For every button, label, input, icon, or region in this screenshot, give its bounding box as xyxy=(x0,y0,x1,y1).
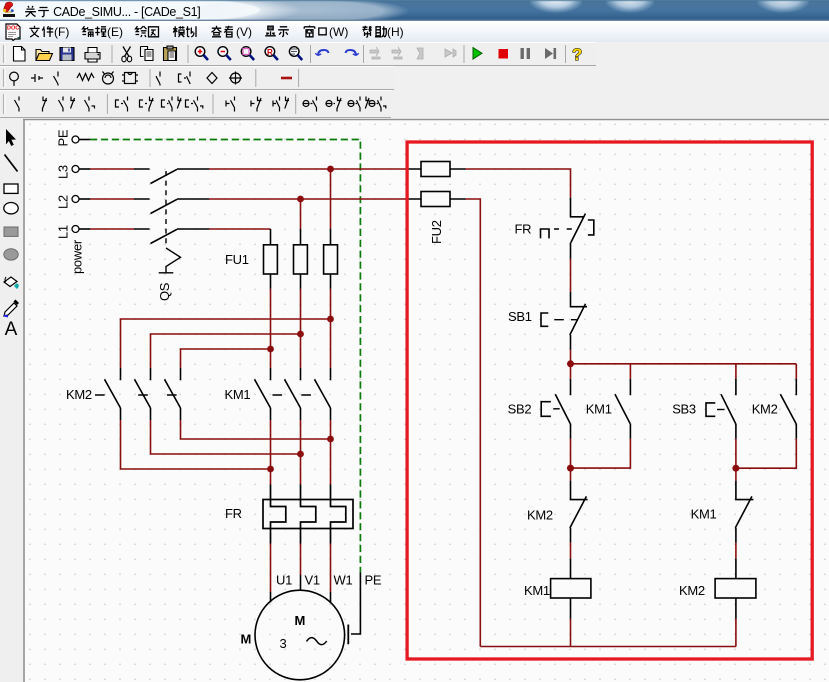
svg-text:KM2: KM2 xyxy=(527,508,553,523)
wire KM2 aux branch xyxy=(736,364,796,468)
pushbutton SB2 (NO) xyxy=(541,379,570,439)
svg-text:A: A xyxy=(5,319,18,340)
node C junction xyxy=(732,465,739,472)
wire phase drops below FU1 xyxy=(271,289,331,368)
disconnect switch QS pole L1 xyxy=(134,229,209,244)
node crossover T3 xyxy=(327,316,334,323)
wire KM2 pole2 down-cross xyxy=(151,420,301,454)
svg-text:V1: V1 xyxy=(305,573,320,588)
undo redo xyxy=(315,50,359,56)
cut xyxy=(123,47,131,57)
fuse FU1 pole 2 xyxy=(294,229,308,289)
disconnect switch QS pole L3 xyxy=(134,169,209,184)
red dash tool xyxy=(281,77,292,80)
svg-text:KM2: KM2 xyxy=(679,583,705,598)
contactor KM1 interlock contact (NC) xyxy=(735,481,753,543)
svg-text:U1: U1 xyxy=(276,573,292,588)
wire L2 to QS xyxy=(90,198,134,200)
wire KM2 pole3 down-cross xyxy=(181,420,331,439)
fill tool xyxy=(4,277,19,289)
wire KM1 interlock to KM2 coil xyxy=(735,543,737,559)
svg-text:?: ? xyxy=(572,45,582,64)
wire FR to motor W1 xyxy=(330,544,332,593)
node crossover B2 xyxy=(297,451,304,458)
wire FR to SB1 xyxy=(570,259,572,292)
wire bottom rail xyxy=(480,646,736,648)
wire top rail xyxy=(571,363,797,365)
G3 detent contacts xyxy=(226,97,235,112)
wire KM1 coil to bottom rail xyxy=(570,619,572,647)
wire KM2 pole1 down-cross xyxy=(121,420,271,469)
wire node C to KM1 interlock xyxy=(735,468,737,480)
control circuit red frame xyxy=(407,142,812,659)
thermal overload FR box xyxy=(263,500,353,529)
svg-text:KM2: KM2 xyxy=(66,387,92,402)
svg-text:M: M xyxy=(295,613,306,628)
wire FU2-1 to FR contact xyxy=(466,169,571,198)
filled rect tool xyxy=(4,227,18,236)
wire KM2 interlock to KM1 coil xyxy=(570,543,572,559)
rect tool xyxy=(4,184,18,193)
disconnect switch QS link and handle xyxy=(159,171,181,273)
node L1 terminal xyxy=(72,226,90,233)
wire PE to motor frame xyxy=(351,573,360,635)
contactor KM2 main contact 2 xyxy=(135,368,151,420)
node junction L2 xyxy=(297,196,304,203)
G2 E- contacts xyxy=(116,97,128,112)
svg-text:KM2: KM2 xyxy=(752,402,778,417)
svg-text:FU2: FU2 xyxy=(429,220,444,244)
node crossover B3 xyxy=(327,436,334,443)
save xyxy=(60,48,74,61)
svg-text:SB3: SB3 xyxy=(672,402,696,417)
ellipse tool xyxy=(4,203,18,214)
wire crossover T2 to KM2 pole2 xyxy=(151,334,301,368)
motor frame terminal bar xyxy=(347,625,349,645)
disconnect switch QS pole L2 xyxy=(134,199,209,214)
wire L3 to FU2 xyxy=(209,168,406,170)
contactor KM2 main contact 1 xyxy=(105,368,121,420)
wire L2 to FU2 xyxy=(209,198,406,200)
fuse FU1 pole 1 xyxy=(264,229,278,289)
pushbutton SB1 (NC) xyxy=(541,292,587,350)
thermal overload FR heater 2 xyxy=(301,485,316,544)
print xyxy=(85,53,100,63)
fuse FU1 pole 3 xyxy=(324,229,338,289)
node crossover T1 xyxy=(267,346,274,353)
NC contact FR xyxy=(541,198,594,259)
wire crossover T1 to KM2 pole3 xyxy=(181,349,271,368)
document icon xyxy=(4,23,22,41)
wire L2 drop xyxy=(300,199,302,229)
wire L3 drop xyxy=(330,169,332,229)
svg-text:FR: FR xyxy=(515,222,532,237)
wire SB1 to node A xyxy=(570,350,572,364)
contactor KM1 aux contact (NO) xyxy=(615,379,630,439)
motor M circle xyxy=(255,590,345,680)
separators xyxy=(112,45,566,63)
wire L1 to FU1 xyxy=(209,228,271,230)
contactor KM2 interlock contact (NC) xyxy=(570,481,588,543)
app icon xyxy=(3,2,15,17)
wire KM2 coil to bottom rail xyxy=(735,619,737,647)
open xyxy=(36,50,49,61)
node junction L3 xyxy=(327,166,334,173)
step xyxy=(545,48,553,59)
node L2 terminal xyxy=(72,196,90,203)
motor tilde symbol xyxy=(307,638,327,645)
svg-text:PE: PE xyxy=(56,129,71,146)
picker tool xyxy=(4,300,19,317)
contactor KM2 aux contact (NO) xyxy=(780,379,796,439)
node crossover B1 xyxy=(267,466,274,473)
G4 circled contacts xyxy=(303,101,309,107)
pause xyxy=(521,48,531,59)
wire PE green dashed xyxy=(90,140,360,573)
svg-text:KM1: KM1 xyxy=(586,402,612,417)
zoom tools xyxy=(195,47,302,60)
thermal overload FR heater 3 xyxy=(331,485,346,544)
svg-text:PE: PE xyxy=(365,573,382,588)
wire node B to KM2 interlock xyxy=(570,468,572,481)
pushbutton SB3 (NO) xyxy=(706,379,736,439)
node A junction xyxy=(567,360,574,367)
svg-text:power: power xyxy=(70,239,85,274)
svg-text:FU1: FU1 xyxy=(225,252,249,267)
wire crossover T3 to KM2 pole1 xyxy=(121,319,331,368)
contactor KM1 main contact 1 xyxy=(255,368,271,420)
wire L3 to QS xyxy=(90,168,134,170)
node L3 terminal xyxy=(72,166,90,173)
G1 plain contacts xyxy=(15,97,20,112)
select arrow xyxy=(6,129,16,146)
fuse FU2 pole 2 xyxy=(406,192,466,207)
wire KM1 outputs to FR xyxy=(271,420,331,485)
svg-text:DOC: DOC xyxy=(7,26,19,32)
svg-text:FR: FR xyxy=(225,506,242,521)
grayed simulation icons xyxy=(370,47,456,59)
node crossover T2 xyxy=(297,331,304,338)
wire FR to motor U1 xyxy=(270,544,272,593)
wire KM1 aux branch xyxy=(571,364,631,468)
new xyxy=(14,47,26,62)
wire FU2-2 to bottom rail xyxy=(466,199,481,647)
svg-text:L2: L2 xyxy=(56,195,71,209)
coil KM1 xyxy=(551,559,591,619)
filled ellipse tool xyxy=(4,249,18,260)
wire FR to motor V1 xyxy=(300,544,302,576)
play xyxy=(473,48,482,60)
contactor KM2 main contact 3 xyxy=(165,368,181,420)
svg-text:3: 3 xyxy=(280,636,287,651)
copy xyxy=(141,47,148,57)
line tool xyxy=(5,155,18,172)
contactor KM1 main contact 2 xyxy=(285,368,301,420)
fuse FU2 pole 1 xyxy=(406,162,466,177)
node B junction xyxy=(567,465,574,472)
node PE terminal xyxy=(72,136,90,143)
svg-text:SB1: SB1 xyxy=(508,309,532,324)
contactor KM1 main contact 3 xyxy=(315,368,331,420)
stop xyxy=(499,49,509,59)
svg-text:KM1: KM1 xyxy=(691,507,717,522)
svg-text:R: R xyxy=(267,48,273,57)
paste xyxy=(164,48,177,61)
KM2 link dashes xyxy=(95,394,177,396)
svg-text:L1: L1 xyxy=(56,225,71,239)
svg-text:M: M xyxy=(241,632,252,647)
svg-text:W1: W1 xyxy=(334,573,353,588)
KM1 link dashes xyxy=(273,394,311,396)
svg-text:KM1: KM1 xyxy=(225,387,251,402)
svg-text:KM1: KM1 xyxy=(524,583,550,598)
svg-text:SB2: SB2 xyxy=(508,402,532,417)
coil KM2 xyxy=(715,559,756,619)
thermal overload FR heater 1 xyxy=(271,485,286,544)
wire L1 to QS xyxy=(90,228,134,230)
svg-text:L3: L3 xyxy=(56,165,71,179)
svg-text:QS: QS xyxy=(157,282,172,301)
